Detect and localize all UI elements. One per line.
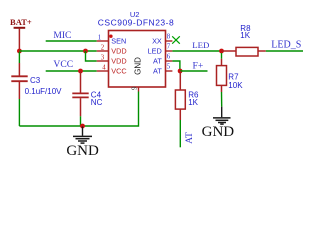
svg-text:1K: 1K bbox=[240, 31, 250, 40]
svg-text:2: 2 bbox=[101, 45, 105, 52]
pin 1 stub bbox=[97, 40, 109, 42]
svg-text:10K: 10K bbox=[228, 81, 243, 90]
pin 9 stub bbox=[138, 87, 140, 92]
resistor R6 bbox=[175, 71, 199, 120]
svg-text:9: 9 bbox=[132, 86, 139, 90]
svg-text:C3: C3 bbox=[30, 76, 41, 85]
resistor R8 bbox=[222, 24, 266, 56]
no-connect X on pin 8 bbox=[172, 36, 180, 43]
wire ground rail bbox=[19, 92, 138, 127]
wire R6 to AT label bbox=[179, 120, 181, 147]
svg-text:VCC: VCC bbox=[53, 59, 73, 70]
svg-text:AT: AT bbox=[153, 57, 162, 66]
svg-text:VDD: VDD bbox=[111, 47, 126, 56]
svg-text:1: 1 bbox=[98, 35, 101, 42]
junction dot F+ node bbox=[178, 69, 183, 74]
pin 6 stub bbox=[166, 60, 173, 62]
svg-text:VDD: VDD bbox=[111, 57, 126, 66]
wire pin 7 to R8 bbox=[172, 50, 221, 52]
svg-text:AT: AT bbox=[184, 132, 195, 144]
svg-text:BAT+: BAT+ bbox=[10, 17, 32, 27]
svg-text:SEN: SEN bbox=[111, 37, 126, 46]
wire LED_S net bbox=[266, 50, 303, 52]
wire MIC net bbox=[46, 40, 97, 42]
junction dot ground rail bbox=[80, 124, 85, 129]
pin 5 stub bbox=[166, 70, 173, 72]
wire BAT+ down to C3 bbox=[18, 52, 20, 63]
junction dot pins 2-3 tie bbox=[83, 49, 88, 54]
junction dot VCC / C4 bbox=[78, 69, 83, 74]
power symbol BAT+ bbox=[10, 17, 32, 51]
svg-text:AT: AT bbox=[153, 67, 162, 76]
svg-text:LED: LED bbox=[148, 47, 162, 56]
wire pin2 junction down to pin 3 bbox=[86, 51, 97, 61]
capacitor C4 bbox=[72, 71, 102, 116]
svg-text:6: 6 bbox=[167, 54, 171, 61]
resistor R7 bbox=[217, 53, 244, 92]
pin 8 stub bbox=[166, 40, 173, 42]
wire BAT+ to pin 2 bbox=[19, 50, 96, 52]
svg-text:3: 3 bbox=[101, 55, 105, 62]
svg-text:LED: LED bbox=[192, 40, 209, 50]
svg-text:8: 8 bbox=[167, 34, 171, 41]
wire F+ net bbox=[180, 70, 207, 72]
svg-text:LED_S: LED_S bbox=[271, 40, 301, 51]
ground GND (right) bbox=[202, 107, 235, 140]
pin 4 stub bbox=[97, 70, 109, 72]
svg-text:GND: GND bbox=[66, 143, 99, 159]
svg-text:F+: F+ bbox=[193, 61, 204, 72]
wire R7 to ground bbox=[221, 92, 223, 107]
capacitor C3 bbox=[11, 63, 62, 99]
pin 3 stub bbox=[97, 60, 109, 62]
svg-text:VCC: VCC bbox=[111, 67, 126, 76]
ground GND (left) bbox=[66, 127, 99, 160]
pin 7 stub bbox=[166, 50, 173, 52]
wire C4 to ground rail bbox=[80, 116, 82, 126]
pin 2 stub bbox=[97, 50, 109, 52]
svg-text:CSC909-DFN23-8: CSC909-DFN23-8 bbox=[98, 17, 174, 27]
svg-text:7: 7 bbox=[167, 44, 171, 51]
svg-text:0.1uF/10V: 0.1uF/10V bbox=[25, 87, 63, 96]
svg-text:XX: XX bbox=[152, 37, 162, 46]
svg-text:NC: NC bbox=[91, 98, 103, 107]
wire C3 to ground rail bbox=[18, 99, 20, 126]
svg-text:5: 5 bbox=[167, 64, 171, 71]
op-amp U2 CSC909-DFN23-8 bbox=[98, 10, 174, 87]
svg-text:1K: 1K bbox=[188, 98, 198, 107]
wire pin 6 down to pin 5 bbox=[172, 61, 180, 71]
wire VCC net bbox=[46, 70, 97, 72]
svg-text:4: 4 bbox=[102, 65, 106, 72]
junction dot LED node bbox=[219, 49, 224, 54]
junction dot BAT+ node bbox=[17, 49, 22, 54]
svg-text:GND: GND bbox=[202, 124, 235, 140]
svg-text:MIC: MIC bbox=[53, 30, 71, 41]
svg-text:GND: GND bbox=[133, 57, 142, 75]
